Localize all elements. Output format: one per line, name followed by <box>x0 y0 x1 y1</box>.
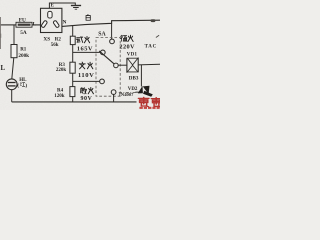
wire: rail drop to R1 <box>13 25 15 45</box>
wire: 微火 contact to bottom rail <box>113 94 115 102</box>
label 文火 <box>79 62 85 69</box>
contact 微火 (bottom) <box>111 90 116 95</box>
fuse FU body <box>16 22 32 27</box>
watermark red characters <box>138 97 148 106</box>
wire: tap 文火 <box>73 80 100 82</box>
switch wiper arm <box>99 51 114 64</box>
fuse FU inner bar <box>18 24 31 26</box>
wire: divider rail top <box>72 25 74 36</box>
socket slot E (top) <box>48 11 52 18</box>
wire: mains live from left edge to fuse <box>0 24 16 26</box>
wire: R3 to R4 <box>72 73 74 86</box>
wire: gate rail down <box>140 65 142 87</box>
wire: R2 to R3 <box>72 45 74 63</box>
wire: bottom rail <box>12 101 137 103</box>
mech link dash-dot <box>119 91 137 93</box>
contact 文火 (left lower) <box>100 79 105 84</box>
background <box>0 0 160 110</box>
socket slot L (left, slanted) <box>41 20 48 28</box>
ground <box>71 6 81 10</box>
wire: R4 to bottom rail <box>72 97 74 102</box>
wire: diac output to right edge <box>138 63 160 66</box>
scan grain <box>0 0 1 1</box>
socket slot N (right, slanted) <box>53 20 60 28</box>
switch pole pivot <box>114 63 119 68</box>
contact 猛火 (top) <box>110 39 115 44</box>
triac blob <box>135 86 152 97</box>
tick above TAC <box>156 35 159 37</box>
resistor R3 <box>70 62 75 73</box>
wire: fuse to socket <box>32 24 41 26</box>
resistor R1 <box>11 45 17 58</box>
wire: neutral (white) from socket to top right <box>62 20 160 26</box>
wire: pivot to diac <box>118 64 127 66</box>
label 猛火 <box>121 35 127 41</box>
watermark small red text <box>139 107 159 109</box>
node: corner junction blob <box>151 19 156 22</box>
wire: drop to switch common <box>111 23 113 39</box>
resistor R4 <box>70 87 75 97</box>
diac DB3 <box>127 58 138 73</box>
wire: earth stub from socket top <box>49 3 75 8</box>
socket XS box <box>41 8 62 32</box>
resistor R2 <box>70 36 75 44</box>
switch SA dashed enclosure <box>96 37 120 96</box>
contact 武火 (left upper) <box>100 50 105 55</box>
label 白 (white) <box>86 14 90 20</box>
left edge tick <box>0 34 1 38</box>
wire: lamp to bottom rail <box>11 90 13 102</box>
label 微火 <box>80 88 86 94</box>
wire: tap 武火 <box>73 51 101 53</box>
label 武火 <box>76 36 82 42</box>
wire: R1 to lamp <box>12 58 14 79</box>
lamp HL <box>6 79 17 90</box>
